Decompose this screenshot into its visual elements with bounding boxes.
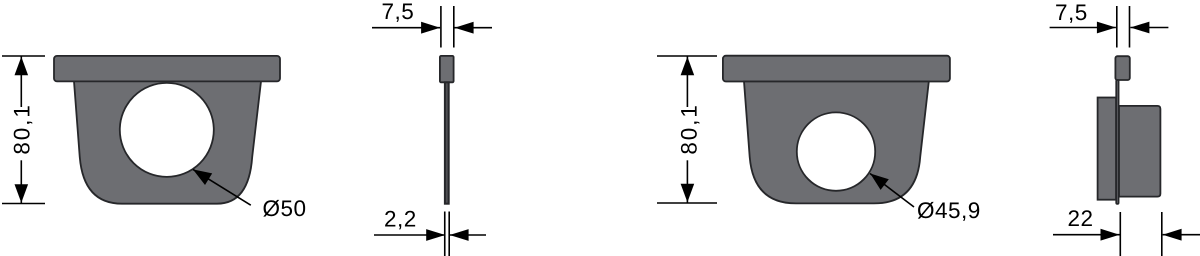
part 2 side view: dimension 22 value label	[1069, 210, 1092, 226]
part 1 side view: dimension 7,5 left arrowhead	[421, 22, 440, 34]
dimension 80,1 (part 2): bottom arrowhead	[681, 184, 695, 203]
leader D50: value label	[263, 200, 305, 217]
part 2 side view: dimension 22 right arrowhead	[1163, 229, 1182, 241]
part 2 side view: dimension 7,5 right dim line	[1130, 27, 1168, 29]
part 1 side view: flange tab	[440, 56, 454, 82]
part 1 front view: flange	[54, 56, 280, 82]
dimension 80,1 (part 1): bottom extension line	[2, 203, 45, 205]
dimension 80,1 (part 1): dimension line upper segment	[20, 56, 22, 107]
part 2 side view: dimension 7,5 value label	[1056, 5, 1086, 23]
leader D45,9: arrowhead	[870, 174, 889, 190]
dimension 80,1 (part 1): bottom arrowhead	[15, 184, 29, 203]
dimension 80,1 (part 1): dimension line lower segment	[20, 160, 22, 203]
part 2 side view: flange tab	[1115, 56, 1129, 80]
leader D50: arrowhead	[193, 169, 212, 185]
part 2 side view: dimension 7,5 left extension line	[1116, 6, 1118, 48]
part 2 side view: dimension 7,5 right arrowhead	[1130, 22, 1149, 34]
part 1 side view: dimension 7,5 left dim line	[372, 27, 440, 29]
leader D50: line	[193, 169, 251, 205]
part 2 side view: dimension 7,5 right extension line	[1129, 6, 1131, 48]
part 1 side view: dimension 2,2 left extension line	[444, 212, 446, 256]
dimension 80,1 (part 2): dimension line upper segment	[686, 56, 688, 107]
dimension 80,1 (part 2): dimension line lower segment	[686, 160, 688, 203]
part 1 side view: dimension 2,2 right dim line	[450, 234, 486, 236]
dimension 80,1 (part 2): bottom extension line	[657, 202, 717, 204]
part 1 side view: dimension 7,5 right arrowhead	[455, 22, 474, 34]
dimension 80,1 (part 1): value label	[14, 106, 33, 153]
part 2 side view: dimension 22 left extension line	[1119, 212, 1121, 256]
part 2 side view: dimension 22 left arrowhead	[1101, 229, 1120, 241]
part 2 side view: thin plate	[1116, 80, 1118, 204]
part 2 side view: dimension 22 right dim line	[1163, 234, 1200, 236]
dimension 80,1 (part 2): top arrowhead	[681, 57, 695, 76]
dimension 80,1 (part 2): value label	[681, 106, 700, 153]
part 2 side view: deep body block	[1119, 106, 1160, 197]
part 1 hole (D50)	[120, 83, 214, 177]
part 2 side view: dimension 7,5 left arrowhead	[1097, 22, 1116, 34]
dimension 80,1 (part 1): top extension line	[2, 55, 45, 57]
part 1 side view: dimension 2,2 left arrowhead	[426, 229, 445, 241]
part 2 front view: flange	[723, 56, 950, 82]
part 1 front view: body	[74, 81, 261, 203]
part 1 side view: dimension 2,2 right arrowhead	[450, 229, 469, 241]
leader D45,9: line	[870, 174, 914, 208]
part 1 side view: dimension 2,2 value label	[385, 211, 415, 230]
part 2 side view: dimension 22 left dim line	[1053, 234, 1120, 236]
part 1 side view: dimension 7,5 right extension line	[453, 6, 455, 48]
part 2 hole (D45,9)	[797, 112, 875, 190]
dimension 80,1 (part 1): top arrowhead	[15, 57, 29, 76]
part 1 side view: dimension 7,5 right dim line	[454, 27, 492, 29]
part 2 side view: dimension 22 right extension line	[1161, 212, 1163, 256]
part 1 side view: dimension 7,5 left extension line	[440, 6, 442, 48]
part 1 side view: dimension 2,2 left dim line	[374, 234, 445, 236]
part 2 side view: dimension 7,5 left dim line	[1050, 27, 1116, 29]
part 2 front view: body	[744, 82, 929, 204]
part 1 side view: dimension 2,2 right extension line	[448, 212, 450, 256]
leader D45,9: value label	[918, 202, 979, 221]
part 2 side view: rear block	[1098, 98, 1117, 200]
dimension 80,1 (part 2): top extension line	[657, 55, 717, 57]
part 1 side view: thin body plate	[445, 82, 449, 203]
part 1 side view: dimension 7,5 value label	[383, 4, 413, 22]
